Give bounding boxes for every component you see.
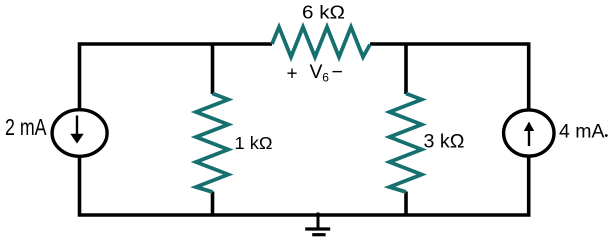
resistor R3 3 kOhm (vertical zigzag) bbox=[390, 94, 422, 193]
resistor R1 6 kOhm (horizontal zigzag) bbox=[272, 27, 370, 57]
wire branch to 3k resistor bbox=[404, 44, 408, 94]
svg-text:+: + bbox=[287, 64, 298, 85]
label period after 4 mA bbox=[605, 134, 608, 137]
wire branch to 1k resistor bbox=[211, 44, 215, 94]
wire 1k resistor to bottom rail bbox=[211, 192, 215, 216]
wire top node A: left corner to 6k resistor bbox=[80, 44, 273, 110]
resistor R2 1 kOhm (vertical zigzag) bbox=[196, 94, 228, 193]
label + V6 - (voltage across 6k) bbox=[287, 61, 343, 85]
svg-text:6: 6 bbox=[322, 71, 329, 85]
svg-text:2 mA: 2 mA bbox=[5, 114, 47, 140]
svg-text:1 kΩ: 1 kΩ bbox=[235, 133, 273, 153]
current source I1 2 mA (circle, arrow down) bbox=[52, 110, 107, 157]
svg-text:4 mA: 4 mA bbox=[559, 121, 605, 142]
svg-text:6 kΩ: 6 kΩ bbox=[302, 1, 345, 22]
svg-text:−: − bbox=[332, 61, 343, 83]
current source I2 4 mA (circle, arrow up) bbox=[504, 110, 554, 156]
wire 3k resistor to bottom rail bbox=[404, 192, 408, 216]
svg-text:3 kΩ: 3 kΩ bbox=[424, 131, 465, 152]
svg-text:V: V bbox=[310, 61, 323, 83]
ground bbox=[305, 213, 330, 235]
wire bottom node: full bottom rail bbox=[80, 156, 529, 215]
wire top right: 6k resistor to right corner bbox=[370, 44, 529, 110]
